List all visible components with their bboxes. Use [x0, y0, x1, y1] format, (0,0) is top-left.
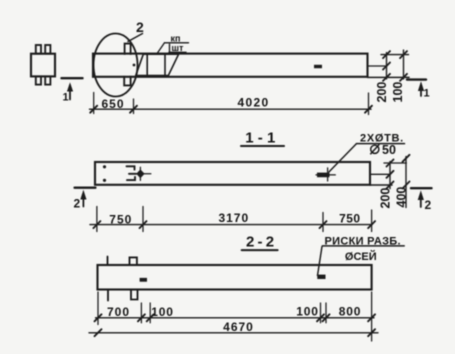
right end step (1-1)	[370, 173, 390, 175]
hole mark (1-1)	[317, 173, 330, 178]
svg-text:РИСКИ РАЗБ.: РИСКИ РАЗБ.	[325, 235, 401, 247]
ticks on 200/100 dims	[383, 51, 390, 58]
diamond crosshair	[131, 173, 151, 175]
beam 1-1	[95, 162, 370, 185]
extension line right (4020)	[368, 93, 370, 115]
main beam (elevation view)	[93, 54, 368, 77]
bottom tick left	[107, 290, 109, 301]
parallelogram inner vertical 1	[146, 54, 148, 75]
cross-section bottom tab 2	[45, 76, 50, 84]
svg-text:400: 400	[395, 187, 409, 208]
2 holes label underline	[357, 143, 405, 145]
axis mark on beam (elevation)	[314, 65, 322, 68]
dot upper left	[103, 165, 106, 168]
label kp underline	[165, 42, 189, 44]
svg-text:750: 750	[109, 212, 132, 226]
svg-text:100: 100	[296, 304, 318, 318]
svg-text:800: 800	[339, 304, 361, 318]
beam top key tab	[125, 44, 131, 54]
svg-text:кп: кп	[171, 33, 181, 43]
svg-text:4020: 4020	[238, 96, 270, 110]
ticks 200/400 dims	[387, 160, 394, 167]
dimension line 700/100 .. 100/800	[96, 317, 375, 319]
bracket mark (З) top corner	[127, 166, 135, 169]
svg-text:700: 700	[107, 305, 130, 319]
cross-section bottom tab 1	[36, 76, 41, 84]
axis mark left (2-2)	[140, 278, 147, 282]
svg-text:100: 100	[151, 305, 173, 319]
svg-text:200: 200	[375, 82, 389, 103]
svg-text:шт: шт	[172, 43, 185, 53]
svg-text:1: 1	[63, 92, 69, 104]
svg-text:1 - 1: 1 - 1	[245, 130, 275, 147]
svg-text:100: 100	[391, 82, 405, 103]
right end step lines (elevation)	[368, 65, 387, 67]
title underline 1-1	[241, 145, 284, 147]
dimension line 650 / 4020	[90, 108, 372, 110]
parallelogram inner vertical 2	[164, 54, 166, 75]
extension line mid (650/4020)	[133, 99, 135, 114]
section marker 1 left: arrow	[69, 88, 71, 100]
cross-section top tab 2	[45, 45, 50, 54]
dot lower left	[103, 179, 106, 182]
svg-text:4670: 4670	[223, 320, 254, 334]
dimension line 4670	[89, 332, 378, 334]
kp leader	[157, 43, 165, 54]
svg-text:2: 2	[425, 198, 432, 212]
leader to axis mark	[318, 247, 323, 276]
splice parallelogram (detail)	[136, 54, 179, 75]
svg-text:ØСЕЙ: ØСЕЙ	[345, 250, 377, 263]
tick 650 right	[130, 106, 137, 113]
svg-text:50: 50	[382, 143, 396, 157]
title underline 2-2	[242, 249, 278, 251]
svg-text:2: 2	[74, 197, 81, 211]
detail callout circle 2	[94, 34, 138, 97]
cross-section top tab 1	[36, 45, 41, 54]
svg-text:650: 650	[101, 97, 124, 111]
section marker 2 left arrow	[82, 196, 84, 207]
bracket mark middle stroke	[129, 173, 136, 175]
tick 4020 right	[365, 106, 372, 113]
section marker 2 left: cut line	[75, 186, 96, 188]
svg-text:2: 2	[136, 19, 144, 35]
section marker 2 right arrow	[420, 197, 422, 207]
bottom key tab	[131, 290, 138, 300]
extension line left (650)	[93, 93, 95, 114]
svg-text:750: 750	[339, 212, 360, 226]
beam bottom key tab	[124, 77, 130, 86]
axis diamond	[136, 169, 144, 178]
section marker 1 right: arrow	[420, 87, 422, 96]
axis mark right (2-2)	[317, 275, 325, 279]
svg-text:1: 1	[424, 88, 430, 100]
leader to hole mark	[329, 144, 357, 172]
dot on parallelogram slant	[133, 64, 136, 67]
label diameter 50	[370, 144, 379, 154]
label sht tick and underline	[169, 44, 171, 52]
beam 2-2	[98, 265, 372, 290]
section marker 1 right: cut line	[407, 78, 426, 80]
pile end cross-section square	[31, 54, 55, 77]
leader of label 2	[128, 34, 143, 42]
svg-text:3170: 3170	[218, 211, 249, 225]
section marker 2 right: cut line	[411, 187, 432, 189]
svg-text:200: 200	[379, 188, 393, 209]
section marker 1 left: cut line	[62, 77, 83, 79]
riski label underline	[322, 245, 404, 247]
tick 650 left	[90, 106, 97, 113]
bracket mark bottom corner	[127, 177, 135, 180]
top tick left	[107, 257, 109, 266]
dimension line 750/3170/750	[90, 224, 372, 226]
top key tab	[130, 257, 137, 265]
svg-text:2-2: 2-2	[246, 234, 277, 251]
